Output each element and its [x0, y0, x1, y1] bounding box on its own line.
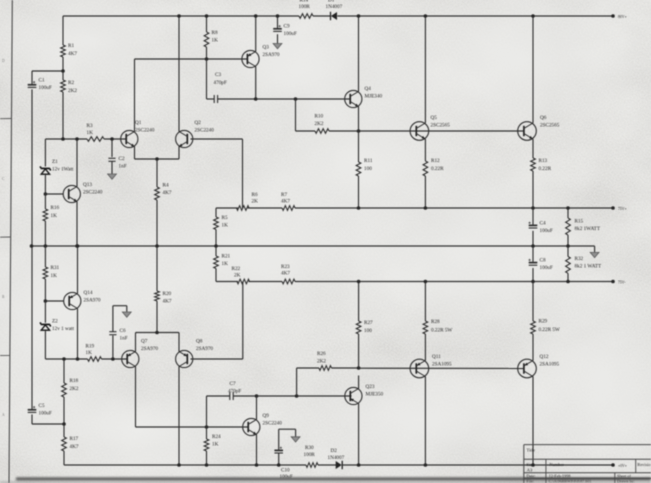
zener Z2 12v 1 watt	[44, 301, 46, 323]
capacitor C5 100uF	[28, 409, 37, 411]
node Q23 emitter / R26 / R27	[357, 366, 361, 370]
node R24/C7 tap	[205, 425, 209, 429]
wire Q13 collector	[76, 139, 78, 187]
wire C1/C5 vertical branch	[31, 71, 33, 84]
wire bottom supply rail	[64, 464, 306, 466]
transistor Q11 2SA1095	[410, 359, 429, 378]
node Z1/Q13 base	[44, 192, 48, 196]
capacitor C9 100uF	[277, 16, 279, 28]
capacitor C2 1nF	[111, 139, 113, 157]
svg-text:1K: 1K	[212, 442, 219, 448]
wire R8 node down to C3	[206, 59, 208, 99]
resistor R12 0.22R	[424, 139, 426, 161]
resistor R13 0.22R	[532, 139, 534, 158]
svg-text:Q6: Q6	[540, 115, 547, 121]
node R18/R17/C5	[62, 422, 66, 426]
svg-text:1K: 1K	[86, 350, 93, 356]
wire Q1 collector / R8 node	[135, 58, 248, 60]
svg-text:100: 100	[364, 166, 372, 172]
svg-text:2SC2240: 2SC2240	[195, 128, 215, 134]
wire Q9 emitter	[256, 435, 258, 466]
transistor Q8 2SA970	[176, 350, 193, 367]
svg-text:R28: R28	[431, 319, 440, 325]
svg-text:C9: C9	[284, 24, 290, 30]
svg-text:100uF: 100uF	[39, 411, 52, 417]
svg-text:Q9: Q9	[263, 413, 270, 419]
svg-text:R2: R2	[68, 80, 74, 86]
node Q9 collector / C7	[255, 394, 259, 398]
svg-text:1N4007: 1N4007	[328, 455, 345, 461]
node R4/R20 on 0V rail	[155, 244, 159, 248]
svg-text:Q2: Q2	[195, 120, 202, 126]
node 0V terminal	[611, 463, 615, 467]
svg-text:R10: R10	[315, 114, 324, 120]
wire Q14 emitter to 0V rail	[77, 246, 79, 294]
resistor R5 1K	[215, 208, 217, 217]
svg-text:2K2: 2K2	[70, 386, 79, 392]
svg-text:Q13: Q13	[83, 182, 92, 188]
svg-text:2SA970: 2SA970	[84, 298, 101, 304]
svg-text:Title: Title	[527, 448, 536, 453]
svg-text:R30: R30	[305, 445, 314, 451]
svg-text:12v 1 watt: 12v 1 watt	[52, 326, 74, 332]
svg-text:R12: R12	[431, 158, 440, 164]
svg-text:Size: Size	[527, 462, 535, 467]
transistor Q3 2SA970	[242, 50, 259, 67]
svg-text:C5: C5	[39, 403, 45, 409]
svg-text:Q11: Q11	[432, 354, 441, 360]
transistor Q5 2SC2565	[410, 122, 429, 141]
svg-text:1K: 1K	[212, 38, 219, 44]
wire Q8 collector to bottom rail	[178, 367, 180, 466]
transistor Q4 MJE340	[345, 90, 362, 107]
resistor R24 1K	[206, 427, 208, 439]
svg-text:R31: R31	[51, 265, 60, 271]
capacitor C1 100uF	[28, 84, 37, 86]
svg-text:2SA970: 2SA970	[263, 52, 280, 58]
scan shadow along bottom edge	[16, 477, 651, 480]
wire Q7/Q8 emitter bridge	[135, 333, 137, 352]
svg-text:Q8: Q8	[196, 339, 203, 345]
svg-text:C2: C2	[119, 156, 125, 162]
svg-text:2SC2240: 2SC2240	[135, 128, 155, 134]
svg-text:R13: R13	[539, 158, 548, 164]
resistor R16 1K	[44, 194, 46, 209]
svg-text:4K7: 4K7	[281, 199, 290, 205]
svg-text:R15: R15	[575, 219, 584, 225]
svg-text:1K: 1K	[51, 213, 58, 219]
node 80V+ terminal	[611, 14, 615, 18]
svg-text:2SA970: 2SA970	[141, 346, 158, 352]
svg-text:MJE350: MJE350	[366, 392, 384, 398]
transistor Q13 2SC2240	[45, 193, 63, 195]
resistor R29 0.22R 5W	[532, 282, 534, 322]
svg-text:R4: R4	[163, 183, 169, 189]
svg-text:R14: R14	[300, 0, 309, 4]
resistor R7 4K7 (on 75V+ rail)	[282, 206, 295, 211]
svg-text:1K: 1K	[87, 130, 94, 136]
svg-text:R16: R16	[51, 205, 60, 211]
svg-text:470pF: 470pF	[228, 389, 241, 395]
svg-text:Q14: Q14	[84, 290, 93, 296]
transistor Q1 2SC2240	[121, 130, 138, 147]
resistor R27 100	[358, 282, 360, 322]
ground above C6	[126, 306, 128, 312]
svg-text:100uF: 100uF	[540, 265, 553, 271]
wire Q6 collector to rail	[532, 16, 534, 123]
svg-text:2SC2565: 2SC2565	[540, 123, 560, 129]
svg-text:R23: R23	[281, 264, 290, 270]
svg-text:75V-: 75V-	[618, 281, 626, 285]
svg-text:2SA970: 2SA970	[196, 346, 213, 352]
svg-text:C7: C7	[230, 381, 236, 387]
svg-text:1nF: 1nF	[119, 164, 127, 170]
svg-text:Z1: Z1	[52, 159, 58, 165]
resistor R20 4K7	[156, 246, 158, 291]
wire Q3 emitter to rail	[255, 16, 257, 52]
capacitor C10 100uF	[278, 453, 280, 465]
resistor R30 100R (in bottom rail)	[306, 463, 318, 468]
capacitor C6 1nF	[112, 336, 114, 360]
svg-text:2K: 2K	[234, 273, 241, 279]
svg-text:4K7: 4K7	[163, 190, 172, 196]
wire 0V centre rail	[32, 245, 595, 247]
resistor R14 100R (in top rail)	[299, 14, 313, 19]
svg-text:2SA1095: 2SA1095	[540, 362, 560, 368]
svg-text:C4: C4	[540, 221, 546, 227]
svg-text:R21: R21	[222, 254, 231, 260]
wire Q11 collector to bottom rail	[424, 377, 426, 466]
resistor R10 2K2	[329, 130, 359, 132]
svg-text:C8: C8	[540, 258, 546, 264]
node R1/R2/C1 junction	[61, 69, 65, 73]
wire Q5 collector to rail	[424, 16, 426, 123]
wire Q23 collector to bottom rail	[358, 404, 360, 466]
resistor R23 4K7 (on 75V- rail)	[282, 279, 295, 284]
svg-text:8k2 1WATT: 8k2 1WATT	[575, 226, 601, 232]
diode D1 1N4007	[330, 12, 332, 20]
wire Q7 collector	[135, 367, 137, 428]
wire top supply rail	[63, 15, 299, 17]
ground arrow on centre rail	[594, 246, 596, 252]
transistor Q7 2SA970	[122, 350, 139, 367]
svg-text:R11: R11	[364, 158, 373, 164]
svg-text:100uF: 100uF	[540, 228, 553, 234]
svg-text:12v 1Watt: 12v 1Watt	[52, 167, 74, 173]
wire Q3 collector down	[255, 67, 257, 100]
transistor Q2 2SC2240	[176, 130, 193, 147]
node R2 to input wire	[61, 137, 65, 141]
node Q3 collector / C3	[254, 97, 258, 101]
svg-text:A: A	[2, 413, 5, 417]
wire Q9 collector node to Q23 base	[257, 395, 297, 397]
node C2 tap	[110, 137, 114, 141]
svg-text:C3: C3	[215, 72, 221, 78]
svg-text:0.22R 5W: 0.22R 5W	[539, 327, 560, 333]
svg-text:R1: R1	[68, 43, 74, 49]
svg-text:D2: D2	[331, 448, 338, 454]
diode D2 1N4007	[341, 461, 343, 469]
capacitor C3 470pF	[207, 98, 215, 100]
svg-text:C10: C10	[281, 468, 290, 474]
svg-text:R18: R18	[70, 378, 79, 384]
capacitor C4 100uF	[532, 208, 534, 225]
resistor R15 8k2 1WATT	[567, 208, 569, 218]
wire Q1 collector up	[134, 59, 136, 132]
wire Q13 emitter	[76, 202, 78, 247]
svg-text:470pF: 470pF	[214, 80, 227, 86]
resistor R26 2K2	[297, 367, 319, 369]
resistor R18 2K2	[63, 359, 65, 383]
svg-text:1N4007: 1N4007	[326, 4, 343, 10]
wire Q23 emitter	[358, 376, 360, 389]
svg-text:R27: R27	[364, 320, 373, 326]
svg-text:R26: R26	[317, 351, 326, 357]
border tick marks	[0, 118, 11, 120]
resistor R2 2K2	[62, 71, 64, 80]
ground below C9	[273, 44, 282, 49]
wire 75V+ mid rail	[216, 207, 238, 209]
wire Q2 base to feedback	[191, 138, 243, 140]
svg-text:2K: 2K	[252, 199, 259, 205]
resistor R28 0.22R 5W	[424, 282, 426, 322]
wire Q4 collector to top rail	[358, 16, 360, 92]
capacitor C7 470pF	[206, 396, 208, 427]
resistor R11 100	[358, 131, 360, 162]
svg-text:4K7: 4K7	[68, 51, 77, 57]
zener Z1 12v 1Watt	[44, 139, 46, 167]
resistor R8 1K	[206, 16, 208, 32]
svg-text:Q7: Q7	[141, 339, 148, 345]
wire Q1/Q2 emitter bridge	[134, 147, 136, 160]
node R16 to 0V rail	[44, 244, 48, 248]
transistor Q23 MJE350	[345, 387, 362, 404]
node 75V+ terminal	[611, 206, 615, 210]
resistor R32 8k2 1 WATT	[567, 246, 569, 257]
svg-text:Q4: Q4	[365, 86, 372, 92]
svg-text:Q23: Q23	[366, 384, 375, 390]
svg-text:Number: Number	[549, 462, 564, 467]
svg-text:R19: R19	[86, 344, 95, 350]
svg-text:R29: R29	[539, 319, 548, 325]
svg-text:75V+: 75V+	[618, 207, 627, 211]
resistor R3 1K	[87, 137, 104, 142]
svg-text:R22: R22	[232, 266, 241, 272]
svg-text:4K7: 4K7	[281, 271, 290, 277]
svg-text:Revisio: Revisio	[637, 462, 651, 467]
svg-text:R20: R20	[163, 291, 172, 297]
svg-text:2K2: 2K2	[68, 88, 77, 94]
svg-text:R7: R7	[281, 192, 287, 198]
svg-text:C1: C1	[39, 78, 45, 84]
svg-text:D1: D1	[328, 0, 335, 4]
svg-text:0.22R: 0.22R	[431, 166, 444, 172]
svg-text:100uF: 100uF	[39, 85, 52, 91]
transistor Q14 2SA970	[45, 300, 64, 302]
svg-text:Q12: Q12	[540, 354, 549, 360]
wire 75V- mid rail	[216, 281, 238, 283]
wire Q9 collector	[256, 396, 258, 420]
resistor R4 4K7	[156, 159, 158, 187]
svg-text:0.22R: 0.22R	[539, 166, 552, 172]
wire Q4 emitter to Q5/Q6 bases	[359, 130, 525, 132]
resistor R22 2K (on 75V- rail)	[237, 279, 250, 284]
svg-text:+0V+: +0V+	[618, 464, 627, 468]
sheet border left edge	[9, 0, 12, 483]
title block frame	[523, 445, 525, 483]
svg-text:R5: R5	[222, 215, 228, 221]
svg-text:Q1: Q1	[135, 120, 142, 126]
node C6 tap	[111, 357, 115, 361]
resistor R21 1K	[215, 246, 217, 256]
svg-text:2SC2565: 2SC2565	[431, 123, 451, 129]
svg-text:100uF: 100uF	[284, 31, 297, 37]
ground below C2	[108, 174, 117, 179]
svg-text:100R: 100R	[304, 452, 316, 458]
svg-text:R6: R6	[252, 192, 258, 198]
svg-text:C6: C6	[120, 328, 126, 334]
wire lower bias node	[45, 358, 87, 360]
wire Q12 collector to bottom rail	[532, 377, 534, 466]
resistor R31 1K	[44, 246, 46, 267]
svg-text:R17: R17	[70, 436, 79, 442]
svg-text:4K7: 4K7	[70, 444, 79, 450]
svg-text:R3: R3	[87, 123, 93, 129]
svg-text:D: D	[2, 59, 5, 63]
svg-text:R32: R32	[575, 256, 584, 262]
svg-text:A3: A3	[527, 468, 533, 473]
svg-text:R8: R8	[212, 30, 218, 36]
resistor R19 1K	[88, 357, 102, 362]
svg-text:2SC2240: 2SC2240	[83, 190, 103, 196]
transistor Q12 2SA1095	[518, 359, 537, 378]
ground above C10	[295, 429, 297, 437]
wire Q14 collector	[77, 309, 79, 360]
resistor R1 4K7	[62, 16, 64, 45]
transistor Q6 2SC2565	[518, 122, 537, 141]
svg-text:Q5: Q5	[431, 115, 438, 121]
svg-text:100R: 100R	[299, 4, 311, 10]
transistor Q9 2SC2240	[243, 418, 260, 435]
svg-text:1nF: 1nF	[120, 336, 128, 342]
wire Q8 base to feedback	[191, 358, 243, 360]
svg-text:1K: 1K	[222, 223, 229, 229]
wire Q2 collector to top rail	[178, 16, 180, 132]
svg-text:1K: 1K	[51, 273, 58, 279]
svg-text:4K7: 4K7	[163, 299, 172, 305]
svg-text:2SA1095: 2SA1095	[432, 362, 452, 368]
svg-text:Z2: Z2	[52, 319, 58, 325]
wire driver node to Q11/Q12 bases	[359, 367, 524, 369]
svg-text:2K2: 2K2	[315, 121, 324, 127]
svg-text:100: 100	[364, 328, 372, 334]
resistor R17 4K7	[63, 424, 65, 437]
node 75V- terminal	[611, 280, 615, 284]
svg-text:0.22R 5W: 0.22R 5W	[431, 328, 452, 334]
node C-branch to 0V rail	[30, 244, 34, 248]
svg-text:1K: 1K	[222, 261, 229, 267]
svg-text:2SC2240: 2SC2240	[263, 421, 283, 427]
svg-text:Q3: Q3	[263, 45, 270, 51]
svg-text:80V+: 80V+	[618, 15, 627, 19]
node R31/Q14 base	[44, 299, 48, 303]
svg-text:MJE340: MJE340	[365, 94, 383, 100]
wire Q4 emitter node	[358, 107, 360, 132]
svg-text:2K2: 2K2	[317, 359, 326, 365]
wire VAS node to Q4 base	[256, 98, 350, 100]
svg-text:R24: R24	[212, 434, 221, 440]
capacitor C8 100uF	[532, 246, 534, 262]
resistor R6 2K (on 75V+ rail)	[237, 206, 250, 211]
svg-text:8k2 1 WATT: 8k2 1 WATT	[575, 264, 603, 270]
wire input node	[45, 138, 87, 140]
